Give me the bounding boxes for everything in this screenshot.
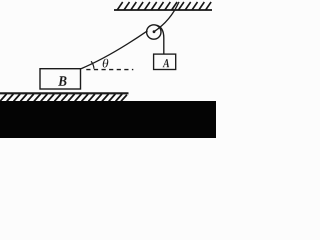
ceiling line xyxy=(114,9,212,11)
ground hatching xyxy=(0,94,127,101)
pulley support rod xyxy=(154,2,179,32)
angle arc xyxy=(91,61,94,69)
rope from block B to pulley xyxy=(81,31,148,69)
label B xyxy=(58,76,66,86)
ground line xyxy=(0,92,129,94)
ceiling hatching xyxy=(117,2,211,10)
dashed horizontal reference line xyxy=(86,69,133,71)
pulley axle dot xyxy=(153,30,156,33)
black band at bottom xyxy=(0,101,216,138)
block A box xyxy=(154,54,176,69)
rope over pulley down to block A xyxy=(157,25,164,54)
theta label xyxy=(103,59,109,68)
pulley wheel xyxy=(147,25,161,39)
label A xyxy=(163,59,170,67)
block B box xyxy=(40,69,81,89)
